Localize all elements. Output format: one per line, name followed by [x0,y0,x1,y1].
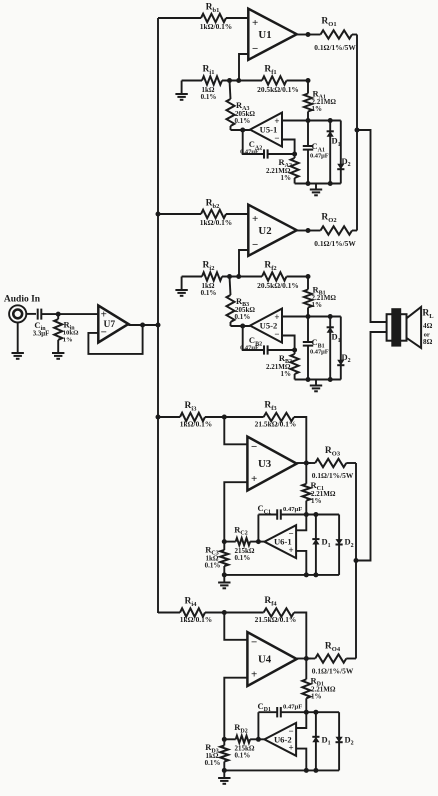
op-amp U3 [247,437,296,491]
svg-text:0.47μF: 0.47μF [283,704,302,711]
node bus-Rb2 junction [156,212,161,217]
node U7 feedback junction [140,323,145,328]
svg-text:RL: RL [422,309,434,320]
node D1 top junction D [313,710,318,715]
svg-text:0.1Ω/1%/5W: 0.1Ω/1%/5W [312,667,354,676]
node U3 output node [304,461,309,466]
svg-text:RO1: RO1 [321,17,336,28]
node speaker bottom feed junction [354,558,359,563]
node U6-2 +in bottom junction [304,768,309,773]
node CB1 bottom junction [306,377,311,382]
svg-text:1kΩ/0.1%: 1kΩ/0.1% [180,615,212,624]
resistor Ri4 [180,608,205,616]
svg-text:1%: 1% [311,497,322,505]
svg-text:10kΩ: 10kΩ [63,330,79,337]
wire RO3-RO4 output bus [355,463,357,659]
resistor RO4 [306,658,315,660]
node CA1 bottom junction [306,181,311,186]
node U1 output node [306,32,311,37]
wire integrator top row D [258,711,277,713]
resistor RB2 [294,350,296,354]
wire U5-2 noninv row [282,316,341,318]
resistor RA3 [230,81,231,100]
diode D1 channel B [329,317,331,380]
resistor Rf1 [239,80,262,82]
node bus-U7out junction [156,323,161,328]
node D1 bottom junction [328,181,333,186]
resistor Ri1 [202,76,222,84]
wire U2 output [297,230,311,232]
svg-text:−: − [252,239,258,251]
node Ri2-RB3 junction [227,274,232,279]
node RC2-RC3 junction [222,539,227,544]
resistor Ri2 [202,272,222,280]
svg-text:Ri4: Ri4 [185,597,198,608]
node Ri1-RA3 junction [227,78,232,83]
wire U2 inverting input [239,250,248,277]
ground jack ground [17,323,19,354]
svg-text:1%: 1% [312,301,323,309]
svg-text:D2: D2 [345,734,354,746]
op-amp U7 [98,306,128,343]
svg-text:1%: 1% [312,105,323,113]
node speaker top feed junction [355,128,360,133]
ground Ri1 ground [181,81,183,95]
node Cin-Rin junction [56,312,61,317]
svg-text:+: + [252,213,258,225]
wire speaker top feed [357,130,387,322]
svg-text:Ri1: Ri1 [203,65,215,76]
wire Rb1 input wire [158,17,201,19]
wire U1 inverting input [239,54,248,81]
resistor RA2 [294,154,296,158]
svg-text:RD2: RD2 [234,722,247,734]
capacitor CB1 [307,317,309,343]
svg-text:0.1%: 0.1% [235,313,251,321]
resistor RC3 [223,542,225,550]
op-amp U1 [248,9,296,60]
svg-text:0.1%: 0.1% [201,289,217,297]
node U6-1 +in bottom junction [304,572,309,577]
resistor Ri3 [180,413,205,421]
resistor RO1 [308,34,321,36]
capacitor CC1 [276,509,278,519]
resistor RD2 [236,736,250,743]
svg-text:U6-2: U6-2 [274,734,292,744]
node CA2-RA2 junction [292,152,297,157]
svg-text:Rf2: Rf2 [264,261,276,272]
svg-text:3.3μF: 3.3μF [33,330,50,337]
ground integrator ground C [223,575,225,583]
svg-text:20.5kΩ/0.1%: 20.5kΩ/0.1% [257,281,299,290]
op-amp U6-1 [264,525,296,558]
svg-text:Audio In: Audio In [4,295,41,305]
ground Ri2 ground [181,277,183,291]
svg-text:D2: D2 [345,537,354,549]
capacitor CD1 [276,707,278,717]
svg-text:Rf1: Rf1 [264,65,276,76]
svg-text:1%: 1% [311,693,322,701]
svg-text:0.1%: 0.1% [205,562,221,570]
wire CD1 feedback leg [257,712,259,739]
svg-text:0.47μF: 0.47μF [240,149,259,156]
svg-text:1kΩ/0.1%: 1kΩ/0.1% [200,218,232,227]
node D1 bottom junction [328,377,333,382]
wire Ri3 input wire [158,416,180,418]
wire U6-1 output wire [250,541,264,543]
wire jack to Cin [26,313,36,315]
node U6-2 output junction [256,737,261,742]
speaker RL [387,314,407,341]
ground integrator ground D [223,770,225,778]
wire U5-2 inverting input [282,336,295,351]
op-amp U4 [247,632,296,686]
svg-text:RO3: RO3 [325,446,341,457]
node RD1-U6 junction [304,710,309,715]
svg-text:1kΩ/0.1%: 1kΩ/0.1% [200,22,232,31]
capacitor Cin [37,309,39,320]
resistor RD1 [305,659,307,680]
svg-text:0.1Ω/1%/5W: 0.1Ω/1%/5W [314,239,356,248]
resistor Rf2 [239,276,262,278]
svg-text:RO2: RO2 [321,213,336,224]
diode D2 channel D [338,712,340,770]
node Rf1-RA1 junction [306,78,311,83]
svg-text:U5-2: U5-2 [260,321,278,331]
diode D2 channel B [340,317,342,380]
wire U4 inverting input [224,613,247,640]
svg-text:Rf3: Rf3 [264,401,277,412]
wire U6-2 inverting input [296,712,306,728]
op-amp U5-1 [250,113,282,147]
svg-text:U3: U3 [258,458,272,470]
node Rf2-RB1 junction [306,274,311,279]
svg-text:0.1Ω/1%/5W: 0.1Ω/1%/5W [314,43,356,52]
svg-text:D2: D2 [342,352,351,364]
resistor RO3 [306,462,315,464]
svg-text:D1: D1 [322,734,331,746]
svg-text:1%: 1% [281,174,292,182]
svg-text:U1: U1 [258,29,271,41]
svg-text:−: − [251,441,257,453]
wire Ri4 input wire [158,612,180,614]
svg-text:Rb2: Rb2 [206,199,220,210]
connector J1 audio jack [9,305,26,322]
wire U7 output [128,324,158,326]
resistor Rf4 [224,612,263,614]
svg-text:U6-1: U6-1 [274,537,292,547]
svg-text:−: − [252,43,258,55]
capacitor CB2 [243,326,264,350]
node U6-1 output junction [256,539,261,544]
svg-text:U5-1: U5-1 [260,125,278,135]
wire U5-1 inverting input [282,140,295,155]
node Ri3-Rf3 junction [222,415,227,420]
svg-text:Ri3: Ri3 [185,401,198,412]
wire U5-1 noninv row [282,120,341,122]
resistor RO2 [308,230,321,232]
svg-text:0.1%: 0.1% [235,752,251,760]
wire U6-1 inverting input [296,515,306,531]
svg-text:1kΩ/0.1%: 1kΩ/0.1% [180,420,212,429]
capacitor CA1 [307,121,309,147]
svg-text:21.5kΩ/0.1%: 21.5kΩ/0.1% [255,615,297,624]
wire U4 noninverting input [224,678,247,740]
node D1 top junction [328,314,333,319]
svg-text:8Ω: 8Ω [423,338,433,346]
ground clamp ground B [315,380,317,386]
node Ri1-U1 junction [236,78,241,83]
svg-text:+: + [101,309,107,321]
svg-text:0.1%: 0.1% [201,93,217,101]
node CB2-RB2 junction [292,348,297,353]
op-amp U5-2 [250,309,282,343]
resistor RB1 [307,277,309,290]
resistor Rb2 [201,210,226,218]
wire U3 output [297,462,311,464]
resistor Rb1 [201,14,226,22]
wire U7 feedback [88,325,142,354]
resistor Rf3 [224,416,263,418]
wire RO1-RO2 output bus [356,35,358,231]
svg-text:0.1%: 0.1% [235,554,251,562]
svg-text:4Ω: 4Ω [423,322,433,330]
wire U6-1 noninverting input [296,551,306,575]
wire CC1 feedback leg [257,515,259,542]
svg-text:U4: U4 [258,654,272,666]
diode D2 channel C [338,515,340,575]
ground Rin ground [57,346,59,354]
wire speaker bottom feed [356,332,387,561]
svg-text:0.47μF: 0.47μF [310,349,329,356]
svg-text:Rb1: Rb1 [206,3,220,14]
wire integrator bottom row D [224,769,339,771]
svg-text:+: + [251,669,257,681]
svg-text:CA1: CA1 [312,141,325,153]
svg-text:−: − [274,133,279,143]
diode D1 channel D [315,712,317,770]
node Ri4-Rf4 junction [222,610,227,615]
node D1 top junction C [313,512,318,517]
svg-text:CB1: CB1 [312,337,325,349]
node D1 top junction [328,118,333,123]
svg-text:−: − [251,636,257,648]
svg-text:−: − [274,329,279,339]
svg-text:0.1%: 0.1% [235,117,251,125]
svg-text:0.1%: 0.1% [205,759,221,767]
node RB1-CB1 junction [306,314,311,319]
resistor RC2 [236,538,250,545]
svg-text:21.5kΩ/0.1%: 21.5kΩ/0.1% [255,420,297,429]
wire U1 output [297,34,311,36]
ground clamp ground A [315,184,317,190]
svg-text:1%: 1% [281,370,292,378]
wire U4 output [297,658,311,660]
op-amp U2 [248,205,296,256]
wire U3 inverting input [224,417,247,444]
svg-text:0.47μF: 0.47μF [310,153,329,160]
svg-text:D1: D1 [332,136,341,148]
node U5-1 out-CA2 junction [240,128,245,133]
wire clamp bottom row B [295,379,341,381]
node RC3 bottom junction [222,572,227,577]
op-amp U6-2 [264,723,296,756]
wire U3 noninverting input [224,482,247,541]
node RD3 bottom junction [222,768,227,773]
svg-text:+: + [252,17,258,29]
node D1 bottom junction D [313,768,318,773]
svg-text:RC2: RC2 [234,524,247,536]
node Ri2-U2 junction [236,274,241,279]
wire integrator bottom row C [224,574,339,576]
svg-text:20.5kΩ/0.1%: 20.5kΩ/0.1% [257,85,299,94]
svg-text:1%: 1% [63,337,73,344]
node RA1-CA1 junction [306,118,311,123]
node U2 output node [306,228,311,233]
svg-text:0.47μF: 0.47μF [283,506,302,513]
resistor RA1 [307,81,309,94]
svg-text:+: + [251,473,257,485]
node U4 output node [304,656,309,661]
resistor RD3 [223,739,225,745]
node D1 bottom junction C [313,572,318,577]
svg-text:D1: D1 [332,332,341,344]
resistor RB3 [230,277,231,296]
svg-text:D2: D2 [342,156,351,168]
wire U6-2 output wire [250,738,264,740]
node RC1-U6 junction [304,512,309,517]
diode D1 channel A [329,121,331,184]
capacitor CA2 [243,130,264,154]
svg-text:0.1Ω/1%/5W: 0.1Ω/1%/5W [312,471,354,480]
wire integrator top row C [258,514,277,516]
wire clamp bottom row A [295,183,341,185]
node RD2-RD3 junction [222,737,227,742]
wire U6-2 noninverting input [296,749,306,771]
diode D2 channel A [340,121,342,184]
wire U5-2 output wire [231,325,251,327]
svg-text:U2: U2 [258,225,271,237]
resistor RC1 [305,463,307,484]
node U5-2 out-CB2 junction [240,324,245,329]
svg-text:U7: U7 [103,320,115,330]
wire main input bus [157,18,159,613]
resistor Rin [57,314,59,319]
svg-text:Rf4: Rf4 [264,596,277,607]
diode D1 channel C [315,515,317,575]
svg-text:0.47μF: 0.47μF [240,345,259,352]
node bus-Ri3 junction [156,415,161,420]
wire U5-1 output wire [231,129,251,131]
svg-text:D1: D1 [322,537,331,549]
svg-text:Ri2: Ri2 [203,261,215,272]
svg-text:RO4: RO4 [325,642,341,653]
wire Rb2 input wire [158,213,201,215]
